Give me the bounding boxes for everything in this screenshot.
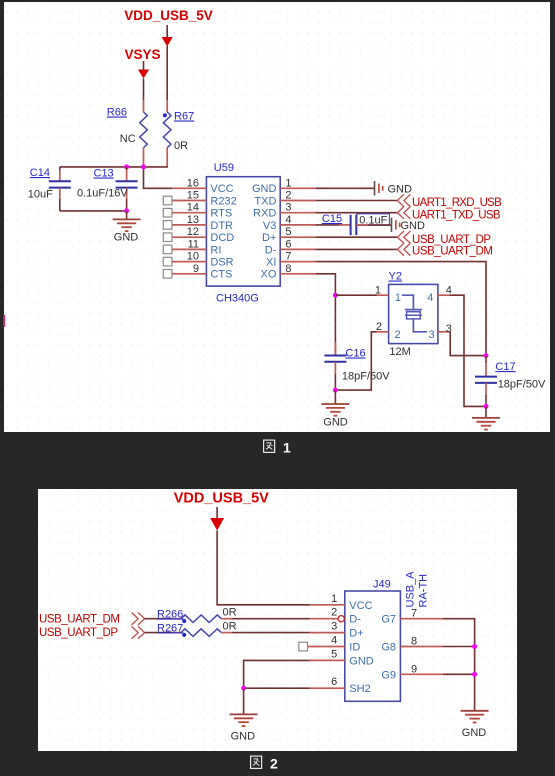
stray magenta mark on sheet edge: [3, 315, 5, 327]
svg-text:G8: G8: [381, 642, 396, 654]
ground GND right (sheet2): [461, 711, 489, 739]
pin 11 RI of U59: [163, 238, 221, 256]
pin 8 G8 of J49: [381, 636, 443, 654]
svg-text:5: 5: [285, 226, 291, 238]
svg-text:USB_UART_DP: USB_UART_DP: [412, 234, 491, 246]
svg-text:C13: C13: [94, 168, 114, 180]
junction pin9/gnd: [472, 672, 477, 677]
comment USB_A RA-TH: [405, 571, 430, 608]
svg-text:GND: GND: [252, 183, 277, 195]
pin 5 GND of J49: [310, 648, 374, 667]
svg-text:15: 15: [187, 190, 199, 202]
crystal Y2 12M: [389, 271, 438, 359]
svg-text:8: 8: [285, 263, 291, 275]
svg-text:USB_A: USB_A: [405, 571, 417, 608]
svg-text:CH340G: CH340G: [216, 293, 259, 305]
wire VSYS to R66: [143, 79, 145, 101]
svg-text:UART1_RXD_USB: UART1_RXD_USB: [412, 197, 502, 209]
svg-text:1: 1: [283, 440, 291, 456]
junction SH2/gnd: [241, 686, 246, 691]
svg-text:7: 7: [411, 608, 417, 620]
svg-text:0R: 0R: [223, 621, 237, 633]
svg-text:2: 2: [376, 321, 382, 333]
svg-text:GND: GND: [231, 731, 256, 743]
svg-text:R67: R67: [174, 111, 194, 123]
wire pin7 XI to C17: [315, 262, 486, 356]
svg-text:1: 1: [331, 593, 337, 605]
svg-text:DTR: DTR: [210, 220, 233, 232]
pin 8 XO of U59: [260, 263, 315, 281]
junction C16/gnd: [333, 388, 338, 393]
svg-text:4: 4: [285, 214, 291, 226]
wire C14 to C13 ground rail: [60, 210, 127, 212]
svg-text:NC: NC: [120, 133, 136, 145]
svg-text:0R: 0R: [174, 140, 188, 152]
svg-text:11: 11: [188, 238, 199, 250]
svg-text:C16: C16: [345, 348, 365, 360]
pin 2 of Y2: [376, 321, 389, 333]
svg-text:10uF: 10uF: [28, 189, 53, 201]
power port VDD_USB_5V (sheet2): [174, 491, 269, 531]
pin 4 V3 of U59: [263, 214, 315, 232]
wire Y2 pin3 to C17: [450, 332, 486, 356]
svg-text:XO: XO: [260, 269, 276, 281]
connector J49 body: [345, 579, 401, 702]
svg-text:D+: D+: [262, 232, 276, 244]
svg-text:G9: G9: [381, 669, 396, 681]
resistor R67 0R: [163, 100, 194, 167]
svg-text:D-: D-: [349, 614, 361, 626]
pin 15 R232 of U59: [163, 190, 236, 208]
svg-text:4: 4: [427, 292, 433, 304]
pin 1 of Y2: [375, 284, 389, 296]
svg-text:DCD: DCD: [210, 232, 234, 244]
wire R267 to J49 pin3: [232, 632, 310, 634]
svg-text:V3: V3: [263, 220, 276, 232]
node USB_UART_DM: [397, 243, 492, 257]
pin 2 D- of J49: [310, 607, 361, 626]
svg-text:XI: XI: [266, 257, 276, 269]
wire Y2 pin2 to C16 gnd: [335, 332, 376, 390]
wire J49 shield pins to GND right: [443, 619, 475, 711]
svg-text:18pF/50V: 18pF/50V: [342, 370, 390, 382]
svg-text:C14: C14: [30, 167, 50, 179]
svg-text:VDD_USB_5V: VDD_USB_5V: [174, 491, 269, 507]
ground GND net label pin1: [375, 181, 413, 195]
pin 10 DSR of U59: [163, 251, 233, 269]
svg-text:GND: GND: [462, 727, 487, 739]
op-amp U59 CH340G body: [206, 162, 280, 305]
pin 3 D+ of J49: [310, 621, 364, 640]
junction XI/C17: [484, 353, 489, 358]
svg-text:5: 5: [331, 648, 337, 660]
svg-text:6: 6: [331, 676, 337, 688]
svg-text:R66: R66: [107, 107, 127, 119]
svg-text:U59: U59: [214, 162, 234, 174]
capacitor C14 10uF: [28, 167, 71, 211]
pin 2 TXD of U59: [254, 190, 315, 208]
pin 4 of Y2: [438, 284, 452, 296]
pin 6 D- of U59: [265, 238, 316, 256]
ground under C17: [472, 406, 500, 429]
svg-text:C17: C17: [495, 361, 515, 373]
svg-text:2: 2: [270, 756, 278, 772]
wire VDD_USB_5V to R67: [166, 46, 168, 100]
svg-text:VSYS: VSYS: [124, 47, 160, 62]
svg-text:3: 3: [429, 329, 435, 341]
junction C13/gnd: [124, 208, 129, 213]
svg-text:3: 3: [285, 202, 291, 214]
svg-text:J49: J49: [373, 579, 391, 591]
svg-text:TXD: TXD: [254, 195, 276, 207]
svg-text:RTS: RTS: [210, 208, 232, 220]
power port VSYS: [124, 47, 160, 79]
svg-text:GND: GND: [323, 417, 348, 429]
svg-text:D+: D+: [349, 628, 363, 640]
svg-text:RI: RI: [210, 244, 221, 256]
svg-text:12: 12: [187, 226, 199, 238]
wire pin2 TXD: [315, 200, 397, 202]
caption fig 1: [264, 440, 291, 456]
wire Y2 pin4 to GND: [450, 295, 486, 406]
pin 4 ID of J49: [299, 635, 361, 654]
wire DP to R267: [145, 632, 172, 634]
svg-text:1: 1: [395, 292, 401, 304]
wire VCC rail y167: [60, 166, 168, 168]
svg-text:GND: GND: [349, 655, 374, 667]
pin 3 RXD of U59: [253, 202, 315, 220]
svg-text:D-: D-: [265, 244, 277, 256]
node USB_UART_DP: [397, 231, 491, 246]
svg-text:10: 10: [187, 251, 199, 263]
junction XO/Y2 pin1: [333, 293, 338, 298]
svg-text:CTS: CTS: [210, 269, 232, 281]
ground GND net label C15: [392, 218, 426, 232]
junction R66/rail: [141, 164, 146, 169]
svg-text:0.1uF/16V: 0.1uF/16V: [77, 188, 128, 200]
wire J49 pin5/pin6 to GND: [244, 660, 310, 688]
svg-text:USB_UART_DM: USB_UART_DM: [412, 246, 492, 258]
wire pin4 V3 to C15: [315, 224, 339, 226]
svg-text:C15: C15: [322, 213, 342, 225]
schematic sheet 2 background: [38, 489, 517, 751]
svg-text:14: 14: [187, 202, 199, 214]
svg-text:2: 2: [285, 190, 291, 202]
svg-text:Y2: Y2: [389, 271, 402, 283]
svg-text:18pF/50V: 18pF/50V: [498, 379, 546, 391]
svg-text:USB_UART_DP: USB_UART_DP: [39, 627, 118, 639]
wire rail to U59 pin 16: [144, 167, 173, 188]
ground GND left (sheet2): [230, 688, 258, 742]
pin 3 of Y2: [438, 323, 452, 335]
junction pin8/gnd: [472, 644, 477, 649]
svg-text:GND: GND: [114, 232, 139, 244]
svg-text:RXD: RXD: [253, 208, 276, 220]
ground GND under C13: [113, 211, 141, 244]
svg-text:R232: R232: [210, 195, 236, 207]
pin 14 RTS of U59: [163, 202, 232, 220]
junction C13/rail: [124, 164, 129, 169]
capacitor C13 0.1uF/16V: [77, 167, 138, 211]
node UART1_RXD_USB: [397, 194, 502, 209]
node UART1_TXD_USB: [397, 207, 500, 222]
svg-text:12M: 12M: [389, 346, 410, 358]
svg-text:R267: R267: [157, 622, 183, 634]
wire pin6 D-: [315, 248, 397, 250]
svg-text:9: 9: [193, 263, 199, 275]
schematic sheet 1 background: [4, 2, 550, 432]
svg-text:ID: ID: [349, 642, 360, 654]
svg-text:UART1_TXD_USB: UART1_TXD_USB: [412, 209, 501, 221]
svg-text:DSR: DSR: [210, 257, 233, 269]
svg-text:3: 3: [331, 621, 337, 633]
capacitor C17 18pF/50V: [475, 356, 546, 407]
svg-text:1: 1: [285, 177, 291, 189]
caption fig 2: [251, 756, 278, 772]
capacitor C16 18pF/50V: [324, 342, 390, 390]
wire R266 to J49 pin2: [232, 618, 310, 620]
svg-text:0R: 0R: [223, 607, 237, 619]
svg-text:8: 8: [411, 636, 417, 648]
svg-text:USB_UART_DM: USB_UART_DM: [39, 613, 119, 625]
svg-text:7: 7: [285, 251, 291, 263]
wire C15 to GND: [356, 224, 368, 226]
wire pin5 D+: [315, 236, 397, 238]
wire pin3 RXD: [315, 212, 397, 214]
svg-text:VCC: VCC: [210, 183, 233, 195]
svg-text:GND: GND: [401, 220, 426, 232]
wire Y2 pin1 to XO: [335, 294, 376, 296]
resistor R266 0R: [157, 607, 237, 623]
svg-text:VCC: VCC: [349, 600, 372, 612]
pin 7 G7 of J49: [381, 608, 443, 626]
pin 5 D+ of U59: [262, 226, 315, 244]
pin 7 XI of U59: [266, 251, 315, 269]
svg-text:4: 4: [331, 635, 337, 647]
ground GND under C16: [321, 390, 349, 428]
wire pin1 to GND: [315, 187, 374, 189]
svg-text:GND: GND: [388, 183, 413, 195]
svg-text:R266: R266: [157, 609, 183, 621]
node USB_UART_DP (sheet2): [39, 626, 145, 639]
pin 1 VCC of J49: [310, 593, 373, 612]
resistor R66 (NC): [107, 100, 148, 167]
pin 13 DTR of U59: [163, 214, 233, 232]
resistor R267 0R: [157, 621, 237, 637]
wire pin8 XO to Y2/C16: [315, 274, 335, 356]
svg-text:2: 2: [395, 329, 401, 341]
svg-text:13: 13: [187, 214, 199, 226]
svg-text:2: 2: [331, 607, 337, 619]
svg-text:G7: G7: [381, 614, 396, 626]
svg-text:9: 9: [411, 663, 417, 675]
svg-text:RA-TH: RA-TH: [418, 574, 430, 608]
pin 9 G9 of J49: [381, 663, 443, 681]
junction C17/gnd: [484, 404, 489, 409]
svg-text:VDD_USB_5V: VDD_USB_5V: [124, 8, 213, 23]
svg-text:6: 6: [285, 238, 291, 250]
svg-text:SH2: SH2: [349, 683, 370, 695]
pin 9 CTS of U59: [163, 263, 232, 281]
wire VDD to J49 pin1: [217, 531, 310, 605]
capacitor C15 0.1uF: [322, 213, 390, 235]
svg-text:16: 16: [187, 177, 199, 189]
pin 12 DCD of U59: [163, 226, 234, 244]
pin 16 VCC of U59: [172, 177, 234, 195]
power port VDD_USB_5V: [124, 8, 213, 47]
node USB_UART_DM (sheet2): [39, 613, 145, 626]
pin 6 SH2 of J49: [310, 676, 371, 695]
pin 1 GND of U59: [252, 177, 315, 195]
wire DM to R266: [145, 618, 172, 620]
